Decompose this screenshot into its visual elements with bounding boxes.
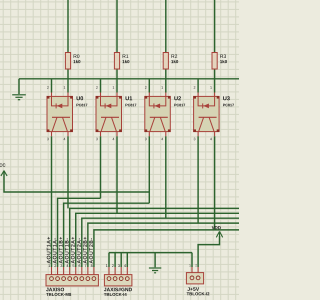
- wire bus to J5V pin1: [191, 253, 193, 267]
- optocoupler U0 PC817: [47, 86, 88, 140]
- node AOUT1A+: [47, 237, 51, 263]
- ground (top-left): [12, 95, 26, 100]
- wire U0 pin3 down: [51, 136, 53, 192]
- wire U1 pin4 down: [116, 136, 118, 213]
- wire input column R3 to U3 pin1: [214, 0, 216, 93]
- wire staircase to connector pin5: [76, 213, 239, 267]
- wire ground bus of middle connector: [109, 252, 192, 254]
- resistor R0: [65, 53, 80, 70]
- node AOUT2A-: [77, 238, 81, 263]
- optocoupler U1 PC817: [96, 86, 137, 140]
- node AOUT2A+: [71, 237, 75, 263]
- wire staircase to connector pin7: [88, 223, 239, 267]
- wire U2 pin3 down: [148, 136, 150, 203]
- node AOUT1A-: [53, 238, 57, 263]
- power terminal VCC: [1, 171, 7, 176]
- wire staircase to connector pin2: [58, 198, 101, 267]
- wire staircase to connector pin6: [82, 218, 239, 267]
- connector J6 +5V TBLOCK-I2: [186, 264, 209, 295]
- resistor R1: [114, 53, 129, 70]
- wire rail to U1 pin2: [100, 79, 102, 93]
- optocoupler U2 PC817: [145, 86, 186, 140]
- wire bus drop: [114, 253, 116, 267]
- wire rail to ground: [18, 79, 20, 94]
- wire rail to U3 pin2: [197, 79, 199, 93]
- optocoupler U3 PC817: [193, 86, 234, 140]
- wire LED cathode rail: [19, 78, 239, 80]
- wire U3 pin4 down: [214, 136, 216, 230]
- wire U1 pin3 down: [100, 136, 102, 198]
- wire staircase to connector pin3: [64, 203, 150, 267]
- wire U0 pin4 down: [67, 136, 69, 208]
- node AOUT2B+: [83, 237, 87, 263]
- wire rail to U2 pin2: [148, 79, 150, 93]
- wire VCC stem and VCC rail: [4, 171, 149, 192]
- wire connector pin1 column: [51, 192, 53, 267]
- ground (middle): [149, 268, 161, 273]
- wire bus drop: [108, 253, 110, 267]
- resistor R2: [163, 53, 178, 70]
- wire staircase to connector pin4: [70, 208, 239, 267]
- node AOUT1B-: [65, 238, 69, 263]
- wire bus drop: [120, 253, 122, 267]
- power terminal VDD: [216, 231, 222, 237]
- node AOUT1B+: [59, 237, 63, 263]
- wire VDD to J5V pin2: [198, 236, 219, 267]
- wire input column R2 to U2 pin1: [165, 0, 167, 93]
- wire rail to U0 pin2: [51, 79, 53, 93]
- connector J5 AXIS#GND TBLOCK-I4: [104, 264, 132, 296]
- wire input column R0 to U0 pin1: [67, 0, 69, 93]
- wire input column R1 to U1 pin1: [116, 0, 118, 93]
- wire staircase to connector pin8: [94, 230, 239, 267]
- connector J4 AXISO TBLOCK-M8: [46, 264, 98, 296]
- wire bus drop: [126, 253, 128, 267]
- resistor R3: [212, 53, 227, 70]
- node AOUT2B-: [89, 238, 93, 263]
- wire bus to ground symbol: [154, 253, 156, 268]
- wire U3 pin3 down: [197, 136, 199, 223]
- wire U2 pin4 down: [165, 136, 167, 218]
